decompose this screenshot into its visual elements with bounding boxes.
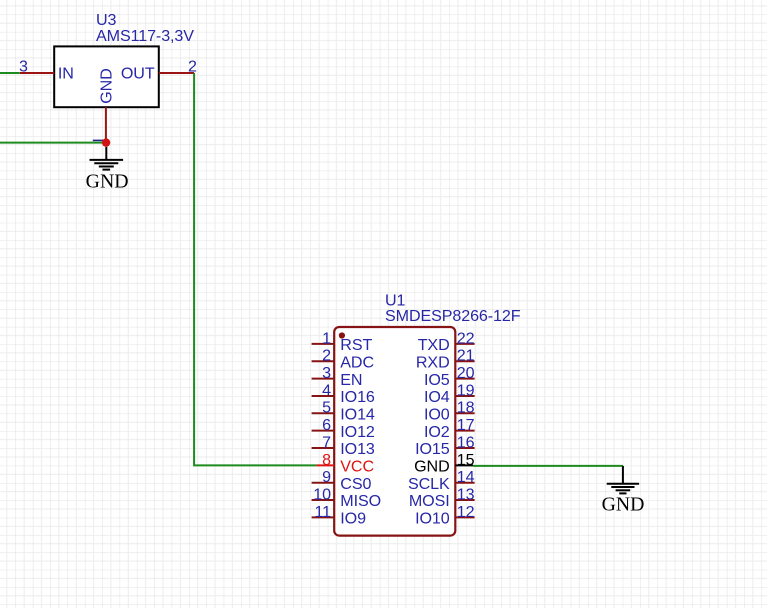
svg-text:SCLK: SCLK: [408, 475, 450, 493]
svg-text:IO9: IO9: [340, 510, 366, 528]
svg-text:2: 2: [322, 347, 331, 365]
svg-text:IO0: IO0: [424, 406, 450, 424]
svg-text:ADC: ADC: [340, 353, 374, 371]
svg-text:IO10: IO10: [415, 510, 450, 528]
svg-text:GND: GND: [98, 68, 116, 103]
svg-text:MISO: MISO: [340, 492, 381, 510]
svg-text:GND: GND: [414, 458, 449, 476]
svg-text:IN: IN: [58, 65, 74, 83]
svg-text:IO13: IO13: [340, 440, 375, 458]
svg-text:15: 15: [457, 451, 475, 469]
svg-text:20: 20: [457, 364, 475, 382]
svg-text:11: 11: [314, 503, 331, 521]
svg-text:8: 8: [322, 451, 331, 469]
svg-text:IO4: IO4: [424, 388, 450, 406]
svg-text:6: 6: [322, 416, 331, 434]
svg-text:IO15: IO15: [415, 440, 450, 458]
svg-text:RXD: RXD: [416, 353, 450, 371]
svg-text:19: 19: [457, 381, 475, 399]
svg-text:GND: GND: [86, 170, 129, 192]
svg-text:10: 10: [313, 485, 331, 503]
svg-text:TXD: TXD: [418, 336, 450, 354]
svg-text:16: 16: [457, 433, 475, 451]
svg-text:SMDESP8266-12F: SMDESP8266-12F: [385, 307, 521, 325]
svg-text:RST: RST: [340, 336, 372, 354]
svg-text:21: 21: [457, 347, 475, 365]
svg-text:MOSI: MOSI: [409, 492, 450, 510]
svg-text:14: 14: [457, 468, 475, 486]
svg-text:4: 4: [322, 381, 331, 399]
svg-text:9: 9: [322, 468, 331, 486]
svg-text:CS0: CS0: [340, 475, 371, 493]
svg-text:18: 18: [457, 399, 475, 417]
svg-text:IO14: IO14: [340, 406, 375, 424]
svg-text:3: 3: [322, 364, 331, 382]
svg-text:1: 1: [322, 329, 331, 347]
svg-text:IO5: IO5: [424, 371, 450, 389]
svg-text:IO2: IO2: [424, 423, 450, 441]
svg-text:GND: GND: [602, 494, 645, 516]
svg-text:13: 13: [457, 485, 475, 503]
svg-text:OUT: OUT: [121, 65, 155, 83]
svg-text:AMS117-3,3V: AMS117-3,3V: [96, 27, 194, 45]
svg-text:VCC: VCC: [340, 458, 374, 476]
svg-text:12: 12: [457, 503, 475, 521]
svg-text:5: 5: [322, 399, 331, 417]
svg-text:17: 17: [457, 416, 475, 434]
svg-text:IO16: IO16: [340, 388, 375, 406]
svg-text:EN: EN: [340, 371, 362, 389]
svg-text:7: 7: [322, 433, 331, 451]
svg-text:IO12: IO12: [340, 423, 375, 441]
svg-text:22: 22: [457, 329, 475, 347]
